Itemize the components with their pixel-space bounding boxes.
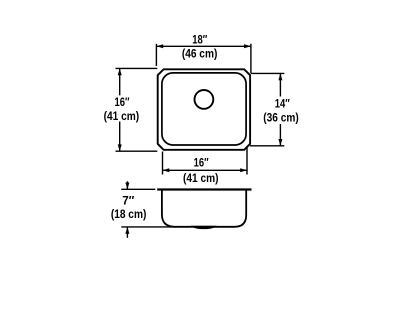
svg-text:16″: 16″ [194, 156, 209, 170]
svg-text:(18 cm): (18 cm) [111, 207, 147, 221]
svg-text:(36 cm): (36 cm) [263, 111, 299, 125]
svg-text:(41 cm): (41 cm) [183, 171, 219, 185]
svg-text:14″: 14″ [275, 96, 290, 110]
svg-text:18″: 18″ [192, 32, 207, 46]
svg-text:16″: 16″ [115, 95, 130, 109]
svg-text:(41 cm): (41 cm) [104, 109, 140, 123]
svg-text:7″: 7″ [122, 194, 134, 208]
svg-text:(46 cm): (46 cm) [182, 47, 218, 61]
